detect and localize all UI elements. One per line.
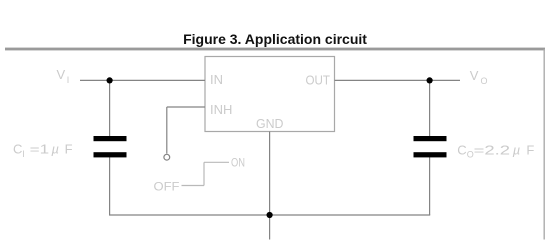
svg-text:C: C	[457, 142, 466, 157]
svg-text:O: O	[481, 76, 488, 86]
wire output lead	[335, 79, 461, 81]
wire GND stub	[269, 132, 271, 240]
node input junction	[107, 77, 113, 83]
wire ON-OFF bracket vertical	[203, 162, 205, 185]
capacitor C1 top plate	[94, 136, 127, 141]
wire left vertical upper	[109, 80, 111, 137]
svg-text:V: V	[470, 68, 479, 83]
node ground junction	[267, 212, 273, 218]
wire input lead	[80, 79, 205, 81]
svg-text:INH: INH	[210, 102, 232, 117]
wire INH horizontal	[167, 106, 205, 108]
svg-text:IN: IN	[210, 72, 223, 87]
svg-text:µ: µ	[52, 141, 60, 156]
svg-text:C: C	[13, 141, 22, 156]
svg-text:V: V	[57, 67, 66, 82]
svg-text:I: I	[22, 149, 25, 159]
capacitor C2 bottom plate	[414, 152, 447, 157]
wire right vertical upper	[429, 80, 431, 137]
svg-text:OUT: OUT	[306, 73, 331, 88]
wire ON tick	[204, 161, 229, 163]
svg-text:GND: GND	[256, 116, 284, 131]
svg-text:Figure 3. Application circuit: Figure 3. Application circuit	[183, 31, 367, 47]
svg-text:F: F	[526, 142, 534, 157]
svg-text:OFF: OFF	[154, 180, 180, 194]
capacitor C1 bottom plate	[94, 152, 127, 157]
wire INH vertical to switch	[166, 107, 168, 154]
svg-text:ON: ON	[231, 156, 245, 170]
title rule	[5, 48, 545, 51]
node output junction	[427, 77, 433, 83]
op-amp U1 regulator body	[205, 57, 335, 132]
svg-text:=2.2: =2.2	[474, 142, 511, 157]
wire bottom ground bus	[109, 214, 430, 216]
svg-text:µ: µ	[513, 142, 521, 157]
wire left vertical lower	[109, 157, 111, 216]
wire right vertical lower	[429, 157, 431, 216]
svg-text:=1: =1	[30, 141, 50, 156]
switch terminal circle	[164, 154, 170, 160]
right page border	[543, 49, 545, 240]
svg-text:I: I	[67, 75, 70, 85]
svg-text:F: F	[65, 141, 73, 156]
wire OFF tick	[182, 185, 205, 187]
capacitor C2 top plate	[414, 136, 447, 141]
